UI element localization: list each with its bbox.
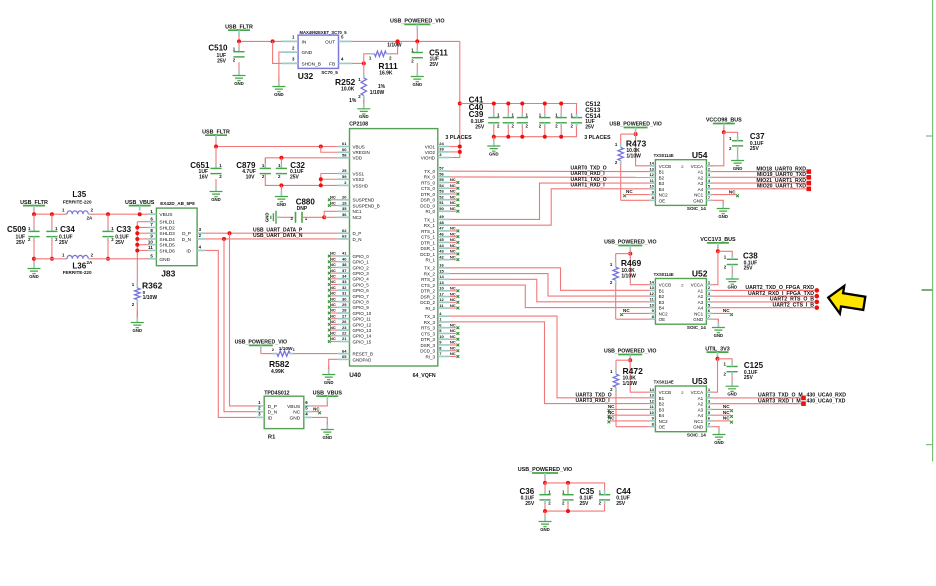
svg-text:49: 49 xyxy=(439,214,444,219)
svg-text:R473: R473 xyxy=(626,138,647,148)
svg-text:RESET_B: RESET_B xyxy=(353,352,374,357)
svg-text:VCCA: VCCA xyxy=(691,283,704,288)
pin 1 (U54 VCCA) xyxy=(706,165,712,167)
svg-text:GPIO_15: GPIO_15 xyxy=(353,339,372,344)
wire U54 A outputs xyxy=(712,171,806,173)
annotation arrow (yellow) xyxy=(826,284,866,317)
svg-text:51: 51 xyxy=(439,200,444,205)
svg-text:UART1_RXD_I: UART1_RXD_I xyxy=(571,183,606,189)
node junction xyxy=(566,509,570,513)
pin 35 (U40 NC1) xyxy=(338,210,350,212)
svg-text:L35: L35 xyxy=(72,190,86,199)
pin 6 (U40 RTS_3) xyxy=(438,327,450,329)
pin 11 (U52 B3) xyxy=(649,301,655,303)
svg-text:GND: GND xyxy=(359,114,369,119)
svg-text:B2: B2 xyxy=(659,294,665,299)
pin 2 (U40 VSSHD) xyxy=(338,184,350,186)
node junction xyxy=(135,231,139,235)
svg-text:D_P: D_P xyxy=(353,231,362,236)
pin 1 (TPD D_P) xyxy=(256,405,264,407)
svg-text:2A: 2A xyxy=(87,260,94,265)
wire VCCA feed (U53) xyxy=(712,359,717,392)
svg-text:4.99K: 4.99K xyxy=(271,369,285,375)
svg-text:RI_0: RI_0 xyxy=(425,209,435,214)
svg-text:FB: FB xyxy=(329,61,335,67)
svg-text:25V: 25V xyxy=(16,240,26,246)
svg-text:R469: R469 xyxy=(621,258,642,268)
svg-text:NC: NC xyxy=(330,279,336,284)
svg-text:25V: 25V xyxy=(580,501,590,507)
svg-text:IN: IN xyxy=(302,39,307,45)
svg-text:SHDN_B: SHDN_B xyxy=(302,61,321,67)
svg-text:25V: 25V xyxy=(290,175,300,181)
no-connect (U53 NC2) xyxy=(610,420,649,422)
svg-text:NC: NC xyxy=(330,302,336,307)
svg-text:1/10W: 1/10W xyxy=(143,295,158,301)
pin 45 (U40 DTR_1) xyxy=(438,241,450,243)
pin 8 (U40 DCD_3) xyxy=(438,350,450,352)
svg-text:NC: NC xyxy=(626,189,633,194)
svg-text:NC: NC xyxy=(450,303,456,308)
svg-text:10V: 10V xyxy=(246,175,256,181)
node junction (cap bank rail) xyxy=(458,102,462,106)
pin 7 (U40 RI_3) xyxy=(438,355,450,357)
wire U32 OUT rail xyxy=(352,40,460,42)
svg-text:VREGIN: VREGIN xyxy=(353,150,370,155)
pin 11 (U40 RI_2) xyxy=(438,307,450,309)
svg-text:TX_1: TX_1 xyxy=(424,217,435,222)
svg-text:C510: C510 xyxy=(208,44,228,53)
svg-text:NC: NC xyxy=(450,183,456,188)
svg-text:10: 10 xyxy=(439,286,444,291)
svg-text:NC: NC xyxy=(330,331,336,336)
svg-text:A2: A2 xyxy=(698,175,704,180)
svg-text:FERRITE-220: FERRITE-220 xyxy=(63,270,92,275)
pin 20 (U40 SUSPEND) xyxy=(338,199,350,201)
svg-text:DTR_1: DTR_1 xyxy=(421,240,436,245)
svg-text:B1: B1 xyxy=(659,396,665,401)
svg-text:B4: B4 xyxy=(659,306,665,311)
svg-text:25: 25 xyxy=(342,168,347,173)
pin 44 (U40 DSR_1) xyxy=(438,247,450,249)
node junction xyxy=(279,156,283,160)
level shifter U52 TXS0114E xyxy=(655,279,706,325)
pin 11 (U53 B3) xyxy=(649,408,655,410)
svg-text:55: 55 xyxy=(439,177,444,182)
inductor L36 FERRITE-220 xyxy=(65,258,67,260)
svg-text:A3: A3 xyxy=(698,300,704,305)
pin 14 (U54 VCCB) xyxy=(649,165,655,167)
no-connect (U52 NC2) xyxy=(623,312,649,314)
ground (R362) xyxy=(136,310,138,318)
svg-text:36: 36 xyxy=(342,212,347,217)
pin 16 (U40 TX_2) xyxy=(438,267,450,269)
wire VCCA feed (U54) xyxy=(711,132,723,166)
svg-text:NC: NC xyxy=(330,308,336,313)
svg-text:10: 10 xyxy=(649,184,654,189)
svg-text:25V: 25V xyxy=(430,62,440,68)
pin 27 (U40 GPIO_11) xyxy=(338,318,350,320)
svg-text:SOIC_14: SOIC_14 xyxy=(687,206,706,211)
svg-text:GND: GND xyxy=(693,425,704,430)
ground (U32) xyxy=(278,76,280,82)
wire VBUS net xyxy=(216,146,338,148)
wire VDD net xyxy=(265,157,338,159)
svg-text:U32: U32 xyxy=(298,71,314,81)
svg-text:VCCB: VCCB xyxy=(659,390,672,395)
svg-text:R1: R1 xyxy=(268,435,276,441)
node junction xyxy=(543,481,547,485)
svg-text:12: 12 xyxy=(439,297,444,302)
svg-text:GPIO_12: GPIO_12 xyxy=(353,322,372,327)
svg-text:B3: B3 xyxy=(659,407,665,412)
svg-text:62: 62 xyxy=(342,228,347,233)
svg-text:A1: A1 xyxy=(698,396,704,401)
svg-text:DTR_2: DTR_2 xyxy=(421,289,436,294)
wire U32 GND to ground xyxy=(279,52,282,81)
ground (C509) xyxy=(33,259,35,264)
svg-text:GND: GND xyxy=(324,380,334,385)
svg-text:CP2108: CP2108 xyxy=(349,122,368,128)
svg-text:VCCB: VCCB xyxy=(659,283,672,288)
pin 30 (U40 GPIO_8) xyxy=(338,301,350,303)
svg-text:GND: GND xyxy=(540,527,550,532)
capacitor C35 xyxy=(567,483,569,491)
pin 3 (TPD ID) xyxy=(256,416,264,418)
pin 5 (TPD NC) xyxy=(304,411,312,413)
wire VCCA feed (U52) xyxy=(712,251,718,284)
pin 5 (U32 OUT) xyxy=(339,40,353,42)
svg-text:GND: GND xyxy=(265,213,270,223)
wire xyxy=(90,213,156,215)
pin 6 (U52 NC1) xyxy=(706,312,712,314)
svg-text:NC: NC xyxy=(450,286,456,291)
svg-text:RI_3: RI_3 xyxy=(425,354,435,359)
pin 6 (J83 SHLD1) xyxy=(148,221,156,223)
pin 7 (U54 GND) xyxy=(706,199,712,201)
node junction xyxy=(279,183,283,187)
svg-text:B1: B1 xyxy=(659,170,665,175)
svg-text:24: 24 xyxy=(439,141,444,146)
node junction xyxy=(543,102,547,106)
node junction xyxy=(492,102,496,106)
pin 2 (J83 D_N) xyxy=(197,238,205,240)
ground (C511) xyxy=(416,63,418,72)
svg-text:USB_UART_DATA_N: USB_UART_DATA_N xyxy=(253,233,303,239)
svg-text:33: 33 xyxy=(342,279,347,284)
pin 4 (U53 A3) xyxy=(706,408,712,410)
wire USB_UART_DATA_N xyxy=(205,238,338,240)
svg-text:DSR_3: DSR_3 xyxy=(420,343,435,348)
USB-UART bridge U40 CP2108 xyxy=(350,129,438,366)
svg-text:NC: NC xyxy=(623,308,630,313)
svg-text:DTR_0: DTR_0 xyxy=(421,192,436,197)
node junction xyxy=(559,102,563,106)
svg-text:SC70_5: SC70_5 xyxy=(321,70,338,75)
no-connect (U54 NC1) xyxy=(712,194,736,196)
wire ID to TPD pin3 xyxy=(205,250,256,417)
svg-text:RTS_2: RTS_2 xyxy=(421,277,435,282)
svg-text:CTS_0: CTS_0 xyxy=(421,186,436,191)
node junction xyxy=(50,212,54,216)
node junction xyxy=(520,135,524,139)
ground (VSS) xyxy=(280,185,282,192)
pin 4 (TPD GND) xyxy=(304,416,312,418)
pin 42 (U40 RI_1) xyxy=(438,259,450,261)
svg-text:SOIC_14: SOIC_14 xyxy=(687,433,706,438)
svg-text:OE: OE xyxy=(659,425,666,430)
net stub UART2_RXD_I_FPGA_TXD xyxy=(815,294,820,299)
svg-text:10: 10 xyxy=(148,239,153,244)
svg-text:SHLD5: SHLD5 xyxy=(159,243,175,249)
svg-text:14: 14 xyxy=(649,161,654,166)
svg-text:SHLD6: SHLD6 xyxy=(159,248,175,254)
svg-text:NC: NC xyxy=(450,334,456,339)
svg-text:GND: GND xyxy=(302,50,313,56)
svg-text:60: 60 xyxy=(342,147,347,152)
svg-text:VDD: VDD xyxy=(353,156,363,161)
pin 53 (U40 DTR_0) xyxy=(438,193,450,195)
svg-text:NC: NC xyxy=(330,251,336,256)
svg-text:OUT: OUT xyxy=(325,39,335,45)
svg-text:SUSPEND: SUSPEND xyxy=(353,198,376,203)
svg-text:13: 13 xyxy=(649,166,654,171)
wire shield xyxy=(137,244,148,246)
svg-text:14: 14 xyxy=(439,274,444,279)
svg-text:NC: NC xyxy=(450,291,456,296)
node junction xyxy=(106,212,110,216)
svg-text:B4: B4 xyxy=(659,413,665,418)
pin 4 (J83 ID) xyxy=(197,249,205,251)
pin 2 (TPD D_N) xyxy=(256,411,264,413)
node junction xyxy=(319,145,323,149)
node junction (C880/NC pins) xyxy=(322,215,326,219)
ground (R252) xyxy=(363,100,365,104)
svg-text:NC: NC xyxy=(330,296,336,301)
wire to VREGIN xyxy=(321,147,338,153)
svg-text:3 PLACES: 3 PLACES xyxy=(584,135,611,141)
capacitor (bank #5) xyxy=(560,104,562,115)
svg-text:B2: B2 xyxy=(659,175,665,180)
svg-text:58: 58 xyxy=(342,153,347,158)
svg-text:NC: NC xyxy=(450,328,456,333)
svg-text:J83: J83 xyxy=(161,268,175,278)
node junction xyxy=(106,257,110,261)
svg-text:11: 11 xyxy=(148,245,153,250)
wire VIO1/VIO2/VIOHD xyxy=(449,146,459,148)
svg-text:40: 40 xyxy=(342,256,347,261)
no-connect (U53 B3) xyxy=(610,408,649,410)
node junction xyxy=(32,257,36,261)
svg-text:VSSHD: VSSHD xyxy=(353,183,369,188)
pin 8 (U53 OE) xyxy=(649,426,655,428)
pin 31 (U40 GPIO_7) xyxy=(338,295,350,297)
svg-text:NC2: NC2 xyxy=(353,215,362,220)
svg-text:GND: GND xyxy=(489,151,499,156)
ground (GNDPAD) xyxy=(328,366,330,370)
node junction xyxy=(135,248,139,252)
pin 65 (U40 GNDPAD) xyxy=(338,358,350,360)
pin 46 (U40 CTS_1) xyxy=(438,236,450,238)
svg-text:GPIO_10: GPIO_10 xyxy=(353,311,372,316)
svg-text:A2: A2 xyxy=(698,294,704,299)
svg-text:GND: GND xyxy=(29,274,39,279)
node junction xyxy=(222,237,226,241)
no-connect (U54 NC2) xyxy=(626,194,649,196)
svg-text:NC: NC xyxy=(450,194,456,199)
svg-text:2A: 2A xyxy=(87,216,94,221)
no-connect (TPD pin 5) xyxy=(312,411,319,413)
svg-text:DCD_0: DCD_0 xyxy=(420,203,435,208)
svg-text:GPIO_1: GPIO_1 xyxy=(353,260,370,265)
svg-text:GPIO_3: GPIO_3 xyxy=(353,271,370,276)
svg-text:25V: 25V xyxy=(217,59,227,65)
wire shield xyxy=(137,238,148,240)
pin 11 (J83 SHLD6) xyxy=(148,249,156,251)
svg-text:OE: OE xyxy=(659,198,666,203)
pin 29 (U40 GPIO_9) xyxy=(338,306,350,308)
net stub UART2_RTS_O_B xyxy=(815,300,820,305)
svg-text:25V: 25V xyxy=(585,124,595,130)
no-connect (U53 A3) xyxy=(712,408,730,410)
svg-text:14: 14 xyxy=(649,387,654,392)
wire shield xyxy=(137,226,148,228)
svg-text:VSS2: VSS2 xyxy=(353,177,365,182)
pin 38 (U40 GPIO_2) xyxy=(338,266,350,268)
sheet border (right edge) xyxy=(932,0,934,462)
wire VCCB feed (U52) xyxy=(630,254,649,285)
pin 1 (J83 VBUS) xyxy=(148,213,156,215)
svg-text:25V: 25V xyxy=(744,375,754,381)
svg-text:NC: NC xyxy=(330,325,336,330)
svg-text:GND: GND xyxy=(211,197,221,202)
pin 12 (U53 B2) xyxy=(649,403,655,405)
svg-text:GND: GND xyxy=(413,82,423,87)
svg-text:VBUS: VBUS xyxy=(159,212,172,218)
wire shield xyxy=(137,232,148,234)
svg-text:A4: A4 xyxy=(698,306,704,311)
svg-text:NC: NC xyxy=(450,243,456,248)
svg-text:25V: 25V xyxy=(616,501,626,507)
svg-text:DCD_3: DCD_3 xyxy=(420,349,435,354)
svg-text:NC: NC xyxy=(729,189,736,194)
svg-text:RX_0: RX_0 xyxy=(424,175,436,180)
capacitor C33 0.1UF xyxy=(107,214,109,228)
pin 13 (U54 B1) xyxy=(649,171,655,173)
pin 2 (U32 GND) xyxy=(282,51,298,53)
svg-text:NC: NC xyxy=(330,319,336,324)
svg-text:TXS0114E: TXS0114E xyxy=(654,153,674,158)
svg-text:28: 28 xyxy=(342,308,347,313)
svg-text:GPIO_9: GPIO_9 xyxy=(353,305,370,310)
svg-text:R472: R472 xyxy=(623,366,644,376)
pin 37 (U40 GPIO_3) xyxy=(338,272,350,274)
pin 10 (U40 DTR_2) xyxy=(438,290,450,292)
svg-text:1/10W: 1/10W xyxy=(621,273,636,279)
svg-text:GND: GND xyxy=(133,328,143,333)
net stub UART2_CTS_I_B xyxy=(815,305,820,310)
pin 49 (U40 TX_1) xyxy=(438,218,450,220)
svg-text:17: 17 xyxy=(439,291,444,296)
svg-text:D_N: D_N xyxy=(353,237,362,242)
svg-text:NC: NC xyxy=(330,195,336,200)
wire D_P to TPD pin1 xyxy=(230,233,257,406)
wire shield xyxy=(137,249,148,251)
pin 4 (U32 FB) xyxy=(339,62,353,64)
svg-text:48: 48 xyxy=(439,220,444,225)
op-amp U32 regulator MAX4492 xyxy=(298,35,338,68)
svg-text:44: 44 xyxy=(439,243,444,248)
svg-text:1/10W: 1/10W xyxy=(279,346,293,352)
capacitor (bank #2) xyxy=(507,104,509,115)
svg-text:NC: NC xyxy=(450,226,456,231)
ground (U54) xyxy=(722,201,724,204)
connector J83 EX42D_AB_5P8 xyxy=(156,208,197,266)
pin 39 (U40 VIO2) xyxy=(438,151,450,153)
node FB junction xyxy=(362,61,366,65)
wire D_N to TPD pin2 xyxy=(224,239,256,412)
pin 33 (U40 GPIO_5) xyxy=(338,284,350,286)
svg-text:NC: NC xyxy=(723,308,730,313)
svg-text:NC: NC xyxy=(608,404,615,409)
pin 62 (U40 D_P) xyxy=(338,232,350,234)
svg-text:TXS0114E: TXS0114E xyxy=(654,379,674,384)
svg-text:GPIO_5: GPIO_5 xyxy=(353,282,370,287)
svg-text:R582: R582 xyxy=(269,359,290,369)
svg-text:64: 64 xyxy=(342,348,347,353)
node junction xyxy=(520,102,524,106)
svg-text:NC2: NC2 xyxy=(659,193,668,198)
svg-text:GPIO_14: GPIO_14 xyxy=(353,334,372,339)
pin 64 (U40 RESET_B) xyxy=(338,353,350,355)
svg-text:15: 15 xyxy=(439,268,444,273)
svg-text:NC: NC xyxy=(293,410,300,416)
ground (C125) xyxy=(731,381,733,383)
svg-text:38: 38 xyxy=(342,262,347,267)
pin 59 (U40 VSS2) xyxy=(338,178,350,180)
svg-text:GPIO_0: GPIO_0 xyxy=(353,254,370,259)
svg-text:39: 39 xyxy=(439,147,444,152)
svg-text:RX_1: RX_1 xyxy=(424,223,436,228)
wire GND return (bottom) xyxy=(34,258,65,260)
off-page marker MIO21_UART1_RXD xyxy=(807,181,812,186)
wire VIO feed (vertical) xyxy=(449,41,459,157)
svg-text:VIO1: VIO1 xyxy=(425,144,436,149)
node junction xyxy=(506,102,510,106)
svg-text:1/10W: 1/10W xyxy=(626,154,641,160)
svg-text:31: 31 xyxy=(342,291,347,296)
pin 10 (U52 B4) xyxy=(649,307,655,309)
wire UART0_TXD_O xyxy=(449,170,649,172)
ground (cap bank) xyxy=(493,137,495,142)
svg-text:50: 50 xyxy=(439,206,444,211)
pin 14 (U53 VCCB) xyxy=(649,391,655,393)
svg-text:U52: U52 xyxy=(692,269,708,279)
wire VSS bottom rail xyxy=(265,174,338,186)
off-page marker MIO18_UART0_RXD xyxy=(807,169,812,174)
pin 10 (U53 B4) xyxy=(649,414,655,416)
pin 6 (U54 NC1) xyxy=(706,194,712,196)
pin 13 (U53 B1) xyxy=(649,397,655,399)
capacitor C38 0.1UF xyxy=(718,251,732,254)
node junction xyxy=(543,509,547,513)
pin 43 (U40 DCD_1) xyxy=(438,253,450,255)
svg-text:NC: NC xyxy=(450,254,456,259)
ground (U52) xyxy=(717,320,719,323)
wire UART2 RTS xyxy=(449,279,649,302)
capacitor C511 xyxy=(416,41,418,49)
ground (C880, sideways) xyxy=(271,211,276,224)
